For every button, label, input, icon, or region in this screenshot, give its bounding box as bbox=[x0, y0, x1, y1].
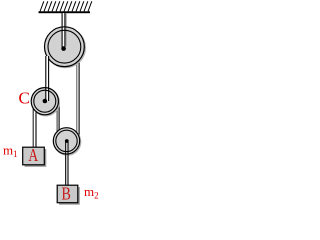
mass A shadow bbox=[25, 149, 47, 167]
mass A box bbox=[23, 147, 45, 165]
pulley C disc bbox=[32, 89, 59, 116]
pulley B rim circles bbox=[53, 128, 79, 154]
svg-text:C: C bbox=[19, 89, 30, 108]
ceiling line bbox=[39, 11, 91, 13]
pulley C rim circles bbox=[31, 88, 58, 115]
top pulley disc bbox=[45, 27, 85, 67]
rope C to pulley B bbox=[57, 101, 59, 141]
support rod from ceiling to top pulley axle bbox=[62, 13, 66, 48]
mass B shadow bbox=[59, 187, 80, 205]
pulley C axle dot bbox=[43, 99, 48, 104]
rope right: top pulley to pulley B (hidden parts behind discs) bbox=[77, 58, 79, 141]
pulley B disc bbox=[54, 129, 80, 155]
rope from pulley B axle to mass B bbox=[66, 141, 68, 186]
rope from top pulley to pulley C axle bbox=[46, 56, 49, 101]
svg-text:B: B bbox=[62, 185, 71, 204]
top pulley axle dot bbox=[61, 46, 66, 51]
svg-text:A: A bbox=[28, 146, 38, 165]
ceiling hatching bbox=[40, 1, 92, 11]
rope to mass A bbox=[33, 100, 36, 148]
mass B box bbox=[57, 185, 78, 203]
pulley B axle dot bbox=[65, 139, 69, 143]
top pulley shadow bbox=[46, 28, 86, 68]
top pulley rim circles bbox=[45, 27, 85, 67]
